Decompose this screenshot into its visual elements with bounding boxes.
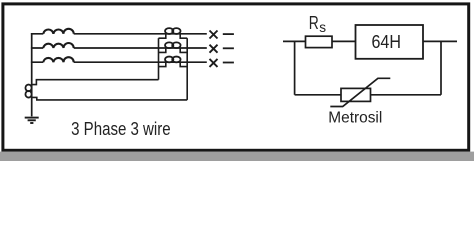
- CT B secondary leads: [159, 48, 188, 52]
- wire left junction vertical: [294, 41, 296, 94]
- frame border: [3, 4, 469, 150]
- breaker cross phase B: [210, 45, 218, 53]
- varistor diagonal stroke: [330, 78, 390, 106]
- svg-text:R: R: [309, 13, 319, 33]
- CT A secondary leads: [159, 34, 188, 38]
- winding A (source coil): [43, 29, 73, 34]
- svg-text:Metrosil: Metrosil: [328, 110, 382, 127]
- resistor Rs: [306, 36, 333, 47]
- frame bottom shadow strip: [0, 152, 474, 161]
- breaker cross phase C: [210, 59, 218, 67]
- wire stub phase C: [223, 62, 234, 64]
- svg-text:3 Phase 3 wire: 3 Phase 3 wire: [71, 118, 171, 139]
- winding C (source coil): [43, 57, 73, 62]
- neutral CT secondary lead bottom: [32, 97, 188, 100]
- relay 64H box: [356, 25, 424, 59]
- winding B (source coil): [43, 43, 73, 48]
- wire right junction vertical: [440, 41, 442, 94]
- svg-text:64H: 64H: [371, 31, 401, 52]
- neutral CT winding bumps: [25, 85, 31, 92]
- svg-text:s: s: [319, 20, 326, 35]
- neutral bus vertical wire: [31, 33, 33, 116]
- wire stub phase B: [223, 47, 234, 49]
- CT B winding bumps: [165, 42, 173, 48]
- wire phase B (left + right of winding): [31, 47, 207, 49]
- CT A winding bumps: [165, 28, 173, 34]
- wire phase C (left + right of winding): [31, 61, 207, 63]
- ground: [25, 118, 39, 123]
- CT secondary bus right: [186, 38, 188, 100]
- wire top (Rs / 64H branch): [283, 40, 457, 42]
- neutral CT secondary lead top: [32, 80, 159, 85]
- wire bottom (Metrosil branch): [295, 94, 441, 96]
- breaker cross phase A: [210, 31, 218, 39]
- wire stub phase A: [223, 33, 234, 35]
- CT C secondary leads: [159, 62, 188, 66]
- CT C winding bumps: [165, 57, 173, 63]
- varistor Metrosil box: [341, 88, 371, 101]
- wire phase A (left + right of winding): [31, 33, 207, 35]
- CT secondary bus left: [158, 38, 160, 79]
